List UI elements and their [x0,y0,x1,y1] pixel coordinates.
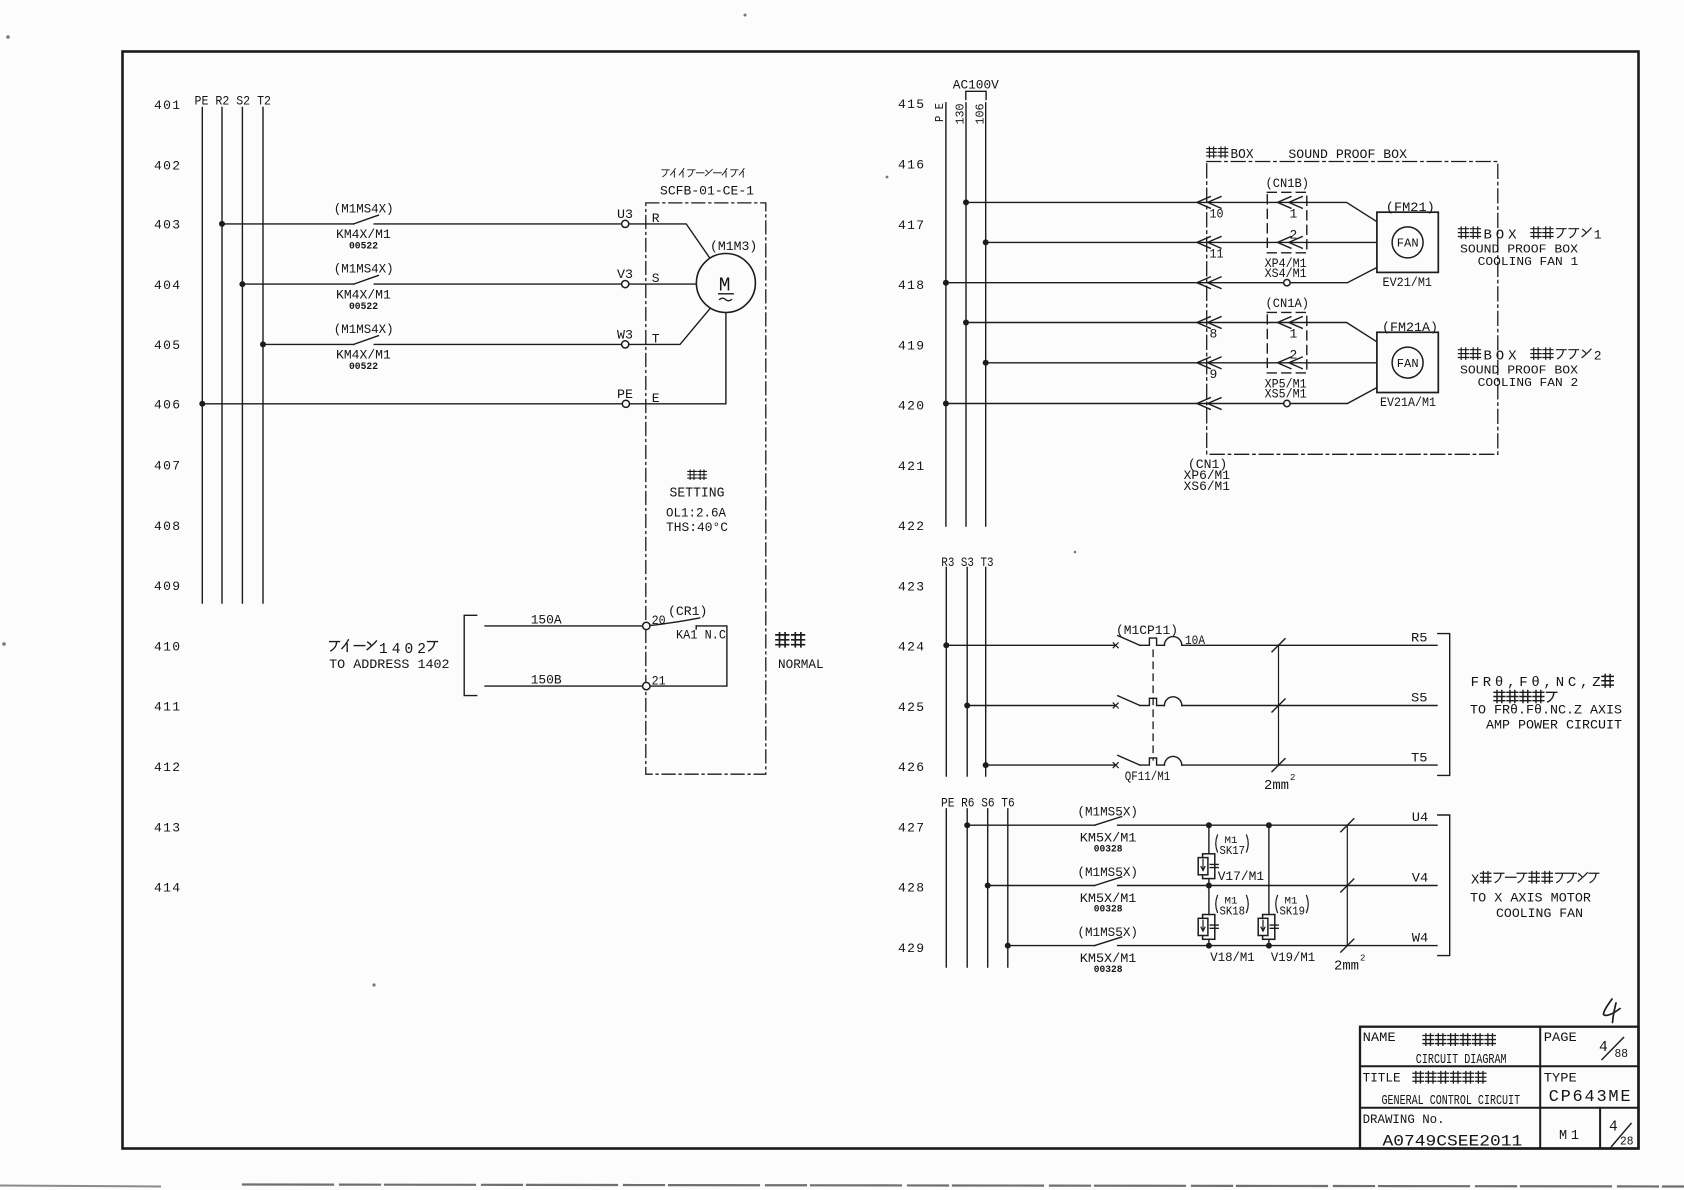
wire 417A [966,202,1377,221]
svg-text:150B: 150B [531,673,562,688]
wire W3 to motor [629,308,711,344]
svg-text:420: 420 [898,399,924,414]
svg-text:404: 404 [154,278,180,293]
svg-text:00522: 00522 [349,241,378,253]
node junction 417A [963,199,969,205]
svg-text:409: 409 [154,579,180,594]
arrow CN1B pin1 [1278,197,1303,209]
contact KM4X/M1 pole R [334,202,394,253]
svg-text:(CR1): (CR1) [668,604,707,619]
contact KM4X/M1 pole S [334,262,394,313]
title block column line upper [1539,1027,1541,1108]
annotation power source japanese [1494,691,1557,703]
node junction 429 [1005,943,1011,949]
svg-text:9: 9 [1210,367,1218,382]
svg-text:FRθ,Fθ,NC,Z: FRθ,Fθ,NC,Z [1471,675,1601,691]
svg-text:21: 21 [652,673,666,688]
node junction 428 SK18 [1206,883,1212,889]
svg-text:V17/M1: V17/M1 [1218,869,1265,884]
annotation X axis motor fan japanese [1471,872,1599,889]
label circuit diagram kanji [1423,1034,1495,1046]
svg-text:W4: W4 [1412,931,1429,946]
svg-text:TYPE: TYPE [1544,1072,1577,1086]
svg-text:407: 407 [154,459,180,474]
wire 418 PE [946,268,1377,283]
svg-text:417: 417 [898,218,924,233]
wire 426 right T5 [1182,764,1437,766]
terminal W3 [617,328,633,349]
node junction 420 PE [943,401,949,407]
svg-text:BOX: BOX [1484,349,1518,365]
bus wire R6 [966,809,968,967]
svg-text:(M1MS5X): (M1MS5X) [1077,925,1138,940]
wire 429 left [1008,945,1095,947]
svg-text:00522: 00522 [349,361,378,373]
wire 424 right R5 [1182,644,1437,646]
svg-text:GENERAL CONTROL CIRCUIT: GENERAL CONTROL CIRCUIT [1382,1093,1521,1109]
bus wire T3 [985,568,987,777]
svg-text:130: 130 [954,104,968,125]
wire 150B [485,673,643,688]
thermal switch SK17 [1198,825,1218,885]
svg-text:V18/M1: V18/M1 [1210,950,1255,965]
node junction 419B [983,360,989,366]
sound proof box [1207,162,1498,455]
svg-text:SK19: SK19 [1280,906,1306,919]
svg-text:2: 2 [1594,349,1602,364]
label normal [776,633,824,672]
svg-text:(M1MS5X): (M1MS5X) [1077,805,1138,820]
terminal U3 [617,207,633,227]
svg-text:SCFB-01-CE-1: SCFB-01-CE-1 [660,183,754,198]
svg-text:PE R6 S6 T6: PE R6 S6 T6 [941,796,1015,811]
wire row 406 PE [202,403,622,405]
svg-text:XS6/M1: XS6/M1 [1184,480,1230,494]
svg-text:1: 1 [1290,207,1298,222]
terminal 21 [643,673,666,689]
svg-text:405: 405 [154,338,180,353]
node junction 425 [964,703,970,709]
label oil cooler unit katakana [662,169,744,178]
svg-text:AMP POWER CIRCUIT: AMP POWER CIRCUIT [1486,718,1622,733]
bus wire PE lower [945,809,947,967]
bus wire PE right [945,103,947,526]
wire row 405 left [263,343,354,345]
node junction 428 [985,883,991,889]
svg-text:106: 106 [973,104,987,125]
svg-text:M1: M1 [1559,1129,1579,1144]
arrow 418 [1197,277,1221,289]
svg-text:00328: 00328 [1094,904,1123,916]
svg-text:00328: 00328 [1094,843,1123,855]
fan FM21A [1377,320,1438,410]
wire 424 left [946,644,1115,646]
svg-text:2mm: 2mm [1334,960,1359,975]
svg-text:T5: T5 [1411,750,1428,765]
annotation cooling fan 1 japanese [1458,227,1601,244]
arrow CN1B pin2 [1278,237,1303,249]
wire 425 right S5 [1182,705,1437,707]
svg-text:TO ADDRESS 1402: TO ADDRESS 1402 [329,657,450,672]
node junction row403 R2 [219,221,225,227]
svg-text:PE R2 S2 T2: PE R2 S2 T2 [195,94,272,109]
svg-text:00522: 00522 [349,301,378,313]
wire 150A [485,612,643,627]
row numbers 401-414 [154,98,180,895]
node junction 427 SK17 [1206,822,1212,828]
sheet number 4/28 [1609,1120,1634,1149]
svg-text:403: 403 [154,218,180,233]
bus wire S2 [241,108,243,604]
title block frame [1360,1027,1639,1149]
bus wire S3 [966,568,968,777]
cable group line 427-429 [1334,819,1365,975]
svg-text:4: 4 [1609,1120,1618,1136]
svg-text:EV21A/M1: EV21A/M1 [1380,395,1436,410]
wire V3 to motor [629,283,697,285]
svg-text:TO FRθ.Fθ.NC.Z AXIS: TO FRθ.Fθ.NC.Z AXIS [1470,703,1622,718]
node junction 427 SK19 [1266,822,1272,828]
svg-text:(M1MS4X): (M1MS4X) [334,322,394,337]
svg-text:SK18: SK18 [1220,906,1246,919]
thermal switch SK18 [1198,886,1218,946]
svg-text:11: 11 [1210,247,1224,262]
svg-text:(M1MS4X): (M1MS4X) [334,202,394,217]
svg-text:424: 424 [898,640,924,655]
svg-text:OL1:2.6A: OL1:2.6A [666,506,726,521]
svg-text:414: 414 [154,881,180,896]
terminal XS4 circle [1284,280,1290,286]
svg-text:NAME: NAME [1363,1031,1396,1045]
node junction 429 SK18 [1206,943,1212,949]
svg-text:S5: S5 [1411,691,1428,706]
svg-text:2: 2 [1360,954,1365,964]
svg-text:KA1 N.C: KA1 N.C [676,628,726,643]
wire 427 right U4 [1118,824,1437,826]
svg-text:401: 401 [154,98,180,113]
svg-text:AC100V: AC100V [953,78,999,93]
svg-text:402: 402 [154,158,180,173]
arrow 419B [1197,357,1221,369]
node junction 426 [983,762,989,768]
wire row 403 left [222,223,354,225]
label bouon box kanji [1207,147,1228,158]
svg-text:V19/M1: V19/M1 [1271,950,1315,965]
bus wire R3 [945,568,947,777]
svg-text:411: 411 [154,700,180,715]
setting text block [666,470,728,535]
wire 428 left [988,885,1095,887]
handwritten check mark 4 [1604,999,1621,1023]
wire 419A [966,323,1377,342]
svg-text:P E: P E [933,103,947,122]
connector CN1A [1266,296,1310,373]
svg-text:CIRCUIT DIAGRAM: CIRCUIT DIAGRAM [1416,1052,1507,1068]
label M1 SK19 [1276,896,1309,919]
contact KM4X/M1 pole T [334,322,394,373]
svg-text:425: 425 [898,700,924,715]
wire KA1 loop [650,626,727,686]
wire 428 right V4 [1118,885,1437,887]
svg-text:TO X AXIS MOTOR: TO X AXIS MOTOR [1470,891,1591,906]
svg-text:416: 416 [898,158,924,173]
arrow 419A [1197,317,1221,329]
page number 4/88 [1599,1038,1628,1061]
bus wire S6 [987,809,989,967]
svg-text:TITLE: TITLE [1363,1072,1401,1086]
contact KM5X/M1 pole W [1077,925,1138,976]
svg-text:2: 2 [1290,348,1298,363]
row numbers 415-429 [898,97,924,956]
svg-text:(M1CP11): (M1CP11) [1116,623,1178,638]
arrow 420 [1197,398,1221,410]
svg-text:SETTING: SETTING [670,487,725,502]
svg-text:423: 423 [898,579,924,594]
svg-text:BOX: BOX [1484,228,1518,244]
svg-text:1: 1 [1290,327,1298,342]
svg-text:COOLING FAN: COOLING FAN [1496,906,1583,921]
svg-text:V4: V4 [1412,871,1429,886]
wire U3 to motor [629,224,711,259]
annotation FR axis japanese [1471,675,1614,691]
svg-text:413: 413 [154,820,180,835]
svg-text:1402: 1402 [379,642,426,658]
svg-text:SOUND PROOF BOX: SOUND PROOF BOX [1288,147,1407,162]
label address 1402 japanese [330,640,438,658]
bus wire PE [201,108,203,604]
breaker gang link [1152,650,1154,760]
terminal XS5 circle [1284,400,1290,406]
svg-text:COOLING FAN 2: COOLING FAN 2 [1478,376,1579,390]
label M1 SK17 [1216,835,1249,858]
AC100V bracket [966,91,986,99]
svg-text:429: 429 [898,941,924,956]
terminal 20 [643,613,666,629]
svg-text:2mm: 2mm [1264,779,1289,794]
svg-text:PAGE: PAGE [1544,1031,1577,1045]
svg-text:28: 28 [1620,1136,1634,1149]
svg-text:EV21/M1: EV21/M1 [1383,275,1433,290]
wire E to motor [630,313,726,404]
svg-text:X: X [1471,873,1480,889]
fan FM21 [1377,200,1438,290]
breaker M1CP11 pole S [1113,696,1182,708]
wire row 404 right [374,283,621,285]
svg-text:QF11/M1: QF11/M1 [1125,769,1171,784]
svg-text:428: 428 [898,881,924,896]
relay contact KA1 N.C (CR1) [650,604,726,643]
wire 427 left [967,824,1094,826]
svg-text:(CN1A): (CN1A) [1266,296,1310,311]
svg-text:88: 88 [1615,1048,1629,1061]
svg-text:FAN: FAN [1397,358,1419,371]
svg-text:150A: 150A [531,612,562,627]
svg-text:THS:40°C: THS:40°C [666,520,728,535]
svg-text:4: 4 [1599,1040,1608,1056]
svg-text:426: 426 [898,760,924,775]
wire 425 left [967,705,1115,707]
breaker M1CP11 pole T [1113,755,1182,784]
svg-text:427: 427 [898,820,924,835]
svg-text:(CN1B): (CN1B) [1266,176,1310,191]
svg-text:412: 412 [154,760,180,775]
svg-text:(M1MS4X): (M1MS4X) [334,262,394,277]
svg-text:A0749CSEE2011: A0749CSEE2011 [1383,1133,1523,1151]
bus wire R2 [221,108,223,604]
svg-text:FAN: FAN [1397,238,1419,251]
contact KM5X/M1 pole U [1077,805,1138,856]
title block row line 2 [1360,1107,1639,1109]
svg-text:415: 415 [898,97,924,112]
svg-text:BOX: BOX [1231,148,1254,163]
title block row line 1 [1360,1065,1639,1067]
svg-text:418: 418 [898,278,924,293]
arrow CN1A pin1 [1278,317,1303,329]
terminal PE [617,387,633,408]
svg-text:20: 20 [652,613,666,628]
node junction row405 T2 [260,341,266,347]
node junction row406 PE [199,401,205,407]
title block column line lower right [1599,1108,1601,1149]
arrow 417A [1197,197,1221,209]
node junction 424 [943,642,949,648]
svg-text:U4: U4 [1412,810,1429,825]
bus wire T2 [262,108,264,604]
svg-text:410: 410 [154,640,180,655]
svg-text:NORMAL: NORMAL [778,658,824,672]
contact KM5X/M1 pole V [1077,865,1138,916]
wire row 405 right [374,343,621,345]
wire 426 left [986,764,1116,766]
arrow CN1A pin2 [1278,357,1303,369]
connector CN1B [1266,176,1310,253]
svg-text:406: 406 [154,398,180,413]
bracket U4-W4 [1438,815,1450,956]
label M1 SK18 [1216,896,1249,919]
node junction row404 S2 [239,281,245,287]
svg-text:CP643ME: CP643ME [1549,1088,1631,1107]
bus wire 130 [965,103,967,526]
svg-text:421: 421 [898,459,924,474]
wire 429 right W4 [1118,945,1437,947]
annotation cooling fan 2 japanese [1458,348,1601,365]
svg-text:408: 408 [154,519,180,534]
svg-text:10: 10 [1210,207,1224,222]
node junction 429 SK19 [1266,943,1272,949]
motor M1M3 [696,239,757,313]
bracket to address 1402 [464,615,477,695]
wire 420 PE [946,388,1377,404]
svg-text:SK17: SK17 [1220,845,1246,858]
svg-text:00328: 00328 [1094,964,1123,976]
svg-text:XS5/M1: XS5/M1 [1265,387,1307,401]
svg-text:2: 2 [1290,773,1295,783]
node junction 418 PE [943,280,949,286]
svg-text:XS4/M1: XS4/M1 [1265,267,1307,281]
wire 419B [986,362,1377,364]
wire 417B [986,241,1377,243]
title block column line lower left [1539,1108,1541,1149]
svg-text:8: 8 [1210,327,1218,342]
svg-text:(M1MS5X): (M1MS5X) [1077,865,1138,880]
label general control kanji [1413,1072,1486,1084]
node junction 419A [963,320,969,326]
svg-text:2: 2 [1290,227,1298,242]
svg-text:422: 422 [898,519,924,534]
node junction 427 [964,822,970,828]
thermal switch SK19 [1258,825,1278,945]
breaker M1CP11 pole R [1113,623,1205,648]
wire row 404 left [242,283,353,285]
bus wire 106 [985,103,987,526]
svg-text:(M1M3): (M1M3) [710,239,757,254]
arrow 417B [1197,237,1221,249]
oil cooler unit box [646,203,766,774]
terminal V3 [617,267,633,288]
svg-text:DRAWING No.: DRAWING No. [1363,1113,1445,1127]
bus wire T6 [1007,809,1009,967]
bracket R5-T5 [1438,634,1450,776]
cable group line 424-426 [1264,639,1295,794]
svg-text:419: 419 [898,338,924,353]
svg-text:COOLING FAN 1: COOLING FAN 1 [1478,255,1579,269]
svg-text:1: 1 [1594,228,1602,243]
wire row 403 right [374,223,621,225]
node junction 417B [983,239,989,245]
svg-text:R5: R5 [1411,630,1428,645]
